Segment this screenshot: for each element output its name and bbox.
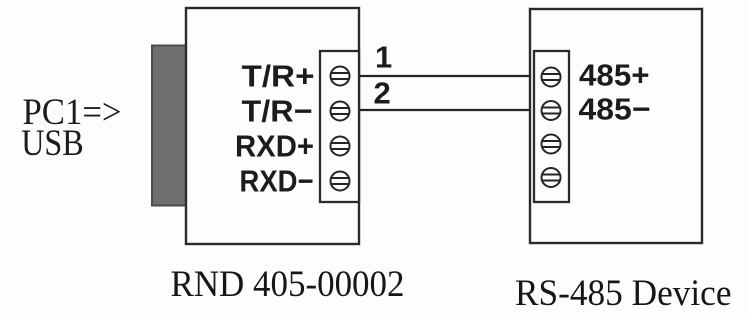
screw terminal 4 (converter RXD-)	[331, 172, 350, 191]
svg-text:RND 405-00002: RND 405-00002	[171, 264, 405, 305]
svg-text:RXD−: RXD−	[240, 164, 314, 199]
wire 1 (T/R+ to 485+)	[359, 75, 535, 77]
svg-text:1: 1	[375, 40, 392, 75]
svg-text:RXD+: RXD+	[235, 129, 314, 164]
svg-text:T/R−: T/R−	[242, 94, 313, 129]
screw terminal 1 (device 485+)	[542, 68, 561, 87]
pin label T/R-	[242, 94, 313, 129]
pin label RXD+	[235, 129, 314, 164]
RS-485 device box	[530, 9, 702, 243]
pin label 485+	[579, 58, 650, 93]
screw terminal 1 (converter T/R+)	[331, 67, 350, 86]
svg-text:USB: USB	[21, 123, 83, 164]
converter box RND 405-00002	[186, 8, 359, 244]
screw terminal 3 (device)	[542, 135, 561, 154]
screw terminal 3 (converter RXD+)	[331, 137, 350, 156]
screw terminal 2 (device 485-)	[542, 101, 561, 120]
svg-text:RS-485 Device: RS-485 Device	[515, 273, 732, 314]
caption RND 405-00002	[171, 264, 405, 305]
screw terminal 4 (device)	[542, 168, 561, 187]
caption RS-485 Device	[515, 273, 732, 314]
svg-text:485−: 485−	[579, 92, 651, 127]
svg-text:T/R+: T/R+	[242, 59, 315, 94]
USB plug (gray connector)	[152, 46, 186, 206]
screw terminal 2 (converter T/R-)	[331, 102, 350, 121]
label PC1=>USB	[21, 92, 121, 164]
svg-text:2: 2	[374, 76, 391, 111]
pin label 485-	[579, 92, 651, 127]
pin number 2	[374, 76, 391, 111]
pin label T/R+	[242, 59, 315, 94]
terminal block (converter)	[320, 51, 359, 202]
pin number 1	[375, 40, 392, 75]
svg-text:485+: 485+	[579, 58, 650, 93]
terminal block (device)	[534, 51, 569, 202]
wire 2 (T/R- to 485-)	[359, 109, 535, 111]
pin label RXD-	[240, 164, 314, 199]
